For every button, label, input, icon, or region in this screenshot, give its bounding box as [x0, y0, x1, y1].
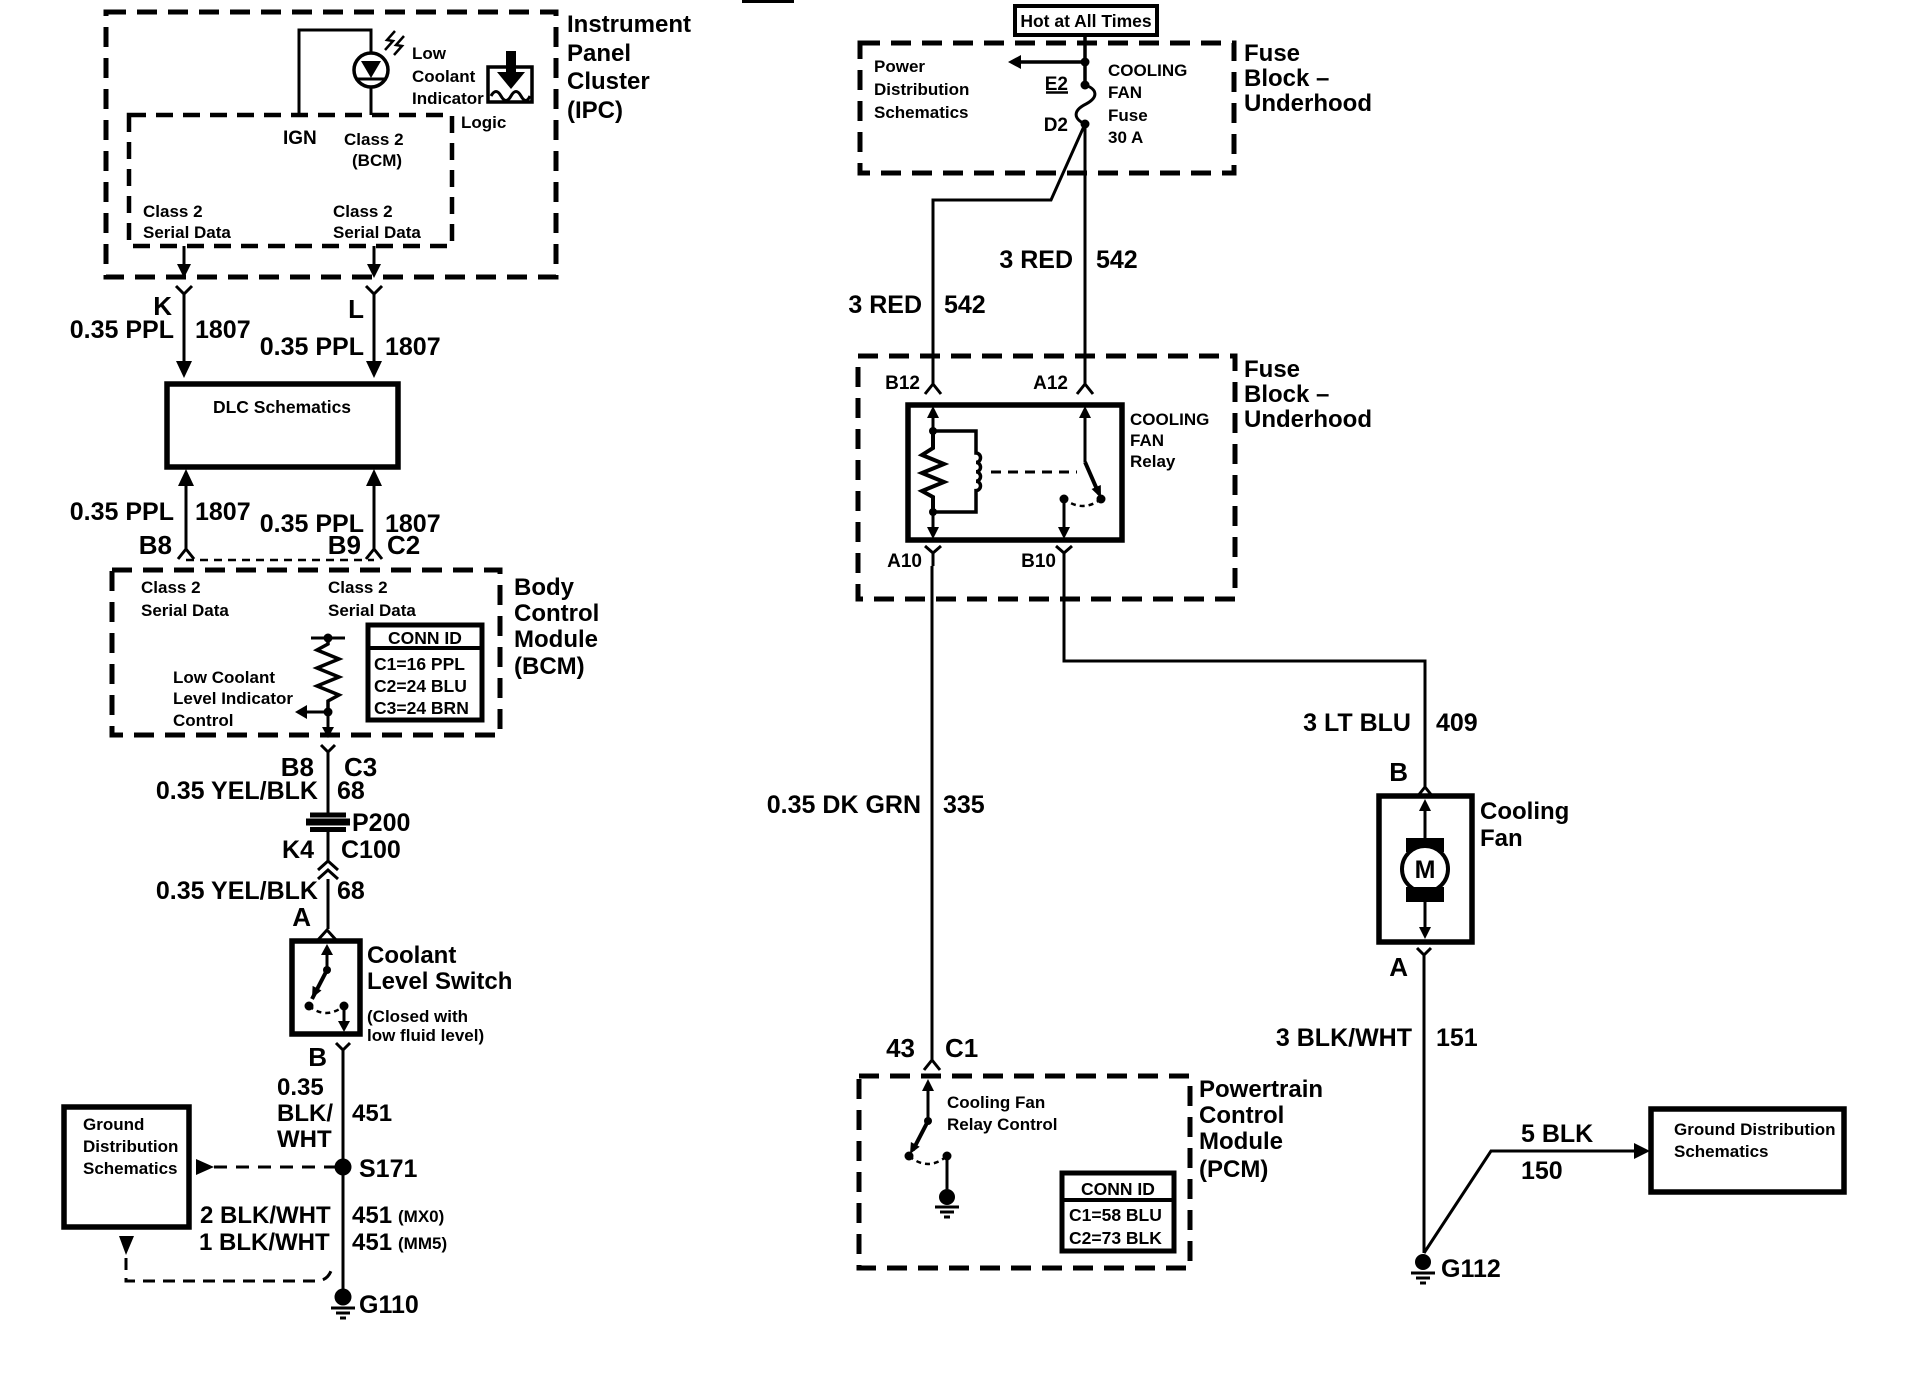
resistor (relay): [922, 431, 944, 512]
label: B12: [885, 373, 920, 394]
svg-text:150: 150: [1521, 1157, 1563, 1185]
label: E2: [1045, 74, 1068, 95]
svg-text:DLC Schematics: DLC Schematics: [213, 397, 351, 417]
svg-text:5 BLK: 5 BLK: [1521, 1120, 1593, 1148]
svg-text:Powertrain: Powertrain: [1199, 1076, 1323, 1103]
label: COOLING FAN Relay: [1130, 410, 1209, 471]
wire: D2 to B12 (diagonal + 3 RED 542): [933, 124, 1085, 372]
svg-text:A: A: [1389, 952, 1408, 982]
label: 0.35 PPL 1807 (K): [70, 316, 251, 344]
svg-text:Fan: Fan: [1480, 825, 1523, 852]
CONN ID table (PCM): [1062, 1173, 1174, 1251]
label: 43 C1: [886, 1033, 978, 1063]
svg-text:Class 2: Class 2: [328, 578, 388, 597]
svg-text:(Closed with: (Closed with: [367, 1007, 468, 1026]
svg-text:Schematics: Schematics: [83, 1159, 178, 1178]
wire: IGN feed to lamp: [299, 30, 371, 115]
svg-text:30 A: 30 A: [1108, 128, 1143, 147]
svg-text:Body: Body: [514, 574, 575, 601]
module label: Body Control Module (BCM): [514, 574, 599, 680]
label: 0.35 BLK/WHT 451: [277, 1074, 392, 1153]
wire: G112 to ground distribution (5 BLK 150): [1424, 1143, 1650, 1253]
wire: battery feed: [1083, 35, 1087, 85]
switch: cooling fan relay control driver (PCM): [905, 1079, 952, 1189]
label: A (fan): [1389, 952, 1408, 982]
svg-text:335: 335: [943, 791, 985, 819]
svg-text:Ground Distribution: Ground Distribution: [1674, 1120, 1835, 1139]
svg-text:1807: 1807: [385, 333, 441, 361]
CONN ID table (BCM): [368, 625, 482, 720]
svg-text:Low: Low: [412, 44, 447, 63]
svg-text:(PCM): (PCM): [1199, 1156, 1268, 1183]
svg-text:Module: Module: [1199, 1128, 1283, 1155]
relay coil input arrow (B12): [927, 406, 939, 431]
node: coil bottom junction: [929, 508, 937, 516]
svg-text:Distribution: Distribution: [83, 1137, 178, 1156]
svg-text:(MX0): (MX0): [398, 1207, 444, 1226]
svg-text:151: 151: [1436, 1024, 1478, 1052]
svg-text:Serial Data: Serial Data: [328, 601, 416, 620]
wire: A10 to PCM C1 (0.35 DK GRN 335): [931, 566, 934, 1048]
svg-text:0.35 DK GRN: 0.35 DK GRN: [767, 791, 921, 819]
svg-text:L: L: [348, 294, 364, 324]
label: Class 2 Serial Data (BCM right): [328, 578, 416, 620]
svg-text:Block –: Block –: [1244, 65, 1329, 92]
wire: B10 to cooling fan B (3 LT BLU 409): [1064, 566, 1425, 780]
module label: Fuse Block Underhood (relay): [1244, 356, 1372, 433]
ground: PCM internal: [935, 1189, 959, 1217]
svg-text:COOLING: COOLING: [1108, 61, 1187, 80]
label: Class 2 (BCM): [344, 130, 404, 170]
label: 0.35 YEL/BLK 68 (second): [156, 877, 365, 905]
connector: A12: [1077, 372, 1093, 394]
svg-text:Underhood: Underhood: [1244, 406, 1372, 433]
svg-text:43: 43: [886, 1033, 915, 1063]
svg-text:Fuse: Fuse: [1244, 40, 1300, 67]
connector chevron at switch A: [317, 930, 337, 941]
svg-text:Coolant: Coolant: [367, 942, 456, 969]
svg-text:Serial Data: Serial Data: [143, 223, 231, 242]
svg-text:B: B: [308, 1042, 327, 1072]
connector: B10: [1056, 546, 1072, 566]
node: feed junction: [1081, 58, 1090, 67]
label: 3 RED 542 (B12 feed): [848, 291, 985, 319]
label: Cooling Fan: [1480, 798, 1569, 852]
svg-text:3 BLK/WHT: 3 BLK/WHT: [1276, 1024, 1412, 1052]
svg-text:B10: B10: [1021, 551, 1056, 572]
wire: C100 to switch A: [327, 879, 330, 929]
svg-text:C2=24 BLU: C2=24 BLU: [374, 676, 467, 696]
svg-text:Low Coolant: Low Coolant: [173, 668, 275, 687]
switch: coolant level switch internals: [305, 944, 351, 1032]
fuse: COOLING FAN Fuse 30 A: [1076, 81, 1095, 129]
svg-text:CONN ID: CONN ID: [388, 628, 462, 648]
box: Ground Distribution Schematics (right): [1651, 1109, 1844, 1192]
svg-text:1 BLK/WHT: 1 BLK/WHT: [199, 1229, 330, 1256]
svg-text:3 RED: 3 RED: [848, 291, 922, 319]
svg-text:M: M: [1415, 856, 1436, 884]
ground: G110: [331, 1289, 419, 1320]
svg-text:Coolant: Coolant: [412, 67, 476, 86]
svg-text:B: B: [1389, 757, 1408, 787]
svg-text:Fuse: Fuse: [1244, 356, 1300, 383]
connector: B12: [925, 372, 941, 394]
svg-text:(MM5): (MM5): [398, 1234, 447, 1253]
svg-text:(IPC): (IPC): [567, 97, 623, 124]
svg-text:FAN: FAN: [1130, 431, 1164, 450]
module label: Fuse Block Underhood (top): [1244, 40, 1372, 117]
svg-text:C3=24 BRN: C3=24 BRN: [374, 698, 469, 718]
connector: PCM C1: [924, 1048, 940, 1070]
component box: Coolant Level Switch: [292, 941, 360, 1034]
node: coil top junction: [929, 427, 937, 435]
svg-text:IGN: IGN: [283, 128, 317, 149]
module label: Powertrain Control Module (PCM): [1199, 1076, 1323, 1183]
resistor: low coolant level indicator control (BCM): [311, 634, 345, 713]
svg-text:Schematics: Schematics: [1674, 1142, 1769, 1161]
relay actuate dashed link: [991, 471, 1077, 474]
module box: Powertrain Control Module (dashed): [859, 1076, 1190, 1268]
lamp rays: [385, 31, 404, 55]
svg-text:G110: G110: [359, 1291, 419, 1319]
arrow: ground distribution reference to S171 (dashed): [196, 1159, 335, 1175]
label: 2 BLK/WHT 451 (MX0): [200, 1202, 444, 1229]
svg-text:G112: G112: [1441, 1255, 1501, 1283]
svg-text:Indicator: Indicator: [412, 89, 484, 108]
svg-text:Cooling Fan: Cooling Fan: [947, 1093, 1045, 1112]
svg-text:Hot at All Times: Hot at All Times: [1020, 11, 1152, 31]
label: 0.35 PPL 1807 (B8): [70, 498, 251, 526]
module box: Body Control Module (dashed): [112, 570, 500, 735]
svg-text:Level Switch: Level Switch: [367, 968, 512, 995]
svg-text:Module: Module: [514, 626, 598, 653]
svg-text:A10: A10: [887, 551, 922, 572]
svg-text:C100: C100: [341, 836, 401, 864]
svg-text:Logic: Logic: [461, 113, 506, 132]
logic icon: [488, 51, 532, 102]
node: resistor output junction: [324, 708, 333, 717]
connector Y: switch B: [336, 1043, 350, 1058]
svg-text:542: 542: [944, 291, 986, 319]
svg-text:Block –: Block –: [1244, 381, 1329, 408]
wire: switch B to G110: [342, 1058, 345, 1291]
label: B (fan): [1389, 757, 1408, 787]
label: Coolant Level Switch: [367, 942, 512, 1045]
label: Low Coolant Level Indicator Control: [173, 668, 293, 730]
wire: control output with down arrow: [322, 712, 334, 738]
svg-text:Schematics: Schematics: [874, 103, 969, 122]
connector boundary box: IPC inner (dashed): [129, 115, 452, 246]
svg-text:WHT: WHT: [277, 1126, 332, 1153]
svg-text:Fuse: Fuse: [1108, 106, 1148, 125]
svg-text:BLK/: BLK/: [277, 1100, 333, 1127]
module box: Fuse Block Underhood top (dashed): [860, 43, 1234, 173]
svg-text:Power: Power: [874, 57, 925, 76]
label: 0.35 PPL 1807 (B9): [260, 510, 441, 538]
svg-text:0.35 YEL/BLK: 0.35 YEL/BLK: [156, 777, 318, 805]
svg-text:C1: C1: [945, 1033, 978, 1063]
svg-text:0.35 YEL/BLK: 0.35 YEL/BLK: [156, 877, 318, 905]
label: B8: [139, 530, 172, 560]
svg-text:Serial Data: Serial Data: [141, 601, 229, 620]
connector: C100 (K4) chevrons: [282, 836, 401, 879]
label: Power Distribution Schematics: [874, 57, 969, 122]
wire: BCM B8 to DLC (up arrow): [178, 469, 194, 559]
label: 0.35 PPL 1807 (L): [260, 333, 441, 361]
arrow: to ground distribution (down triangle, dashed link): [119, 1236, 331, 1281]
svg-text:409: 409: [1436, 709, 1478, 737]
label: 0.35 YEL/BLK 68: [156, 777, 365, 805]
svg-text:451: 451: [352, 1100, 392, 1127]
svg-text:C1=58 BLU: C1=58 BLU: [1069, 1205, 1162, 1225]
svg-text:Cluster: Cluster: [567, 68, 650, 95]
label: 3 BLK/WHT 151: [1276, 1024, 1478, 1052]
label: 5 BLK 150: [1521, 1120, 1593, 1185]
svg-text:A12: A12: [1033, 373, 1068, 394]
label: Class 2 Serial Data (IPC right): [333, 202, 421, 242]
svg-text:C2: C2: [387, 530, 420, 560]
module box: Fuse Block Underhood relay (dashed): [858, 356, 1235, 599]
label: A10: [887, 551, 922, 572]
label: Logic: [461, 113, 506, 132]
relay switch arm (A12): [1058, 406, 1106, 539]
svg-text:451: 451: [352, 1202, 392, 1229]
label: B9: [328, 530, 361, 560]
indicator lamp: Low Coolant Indicator: [354, 53, 388, 115]
svg-text:68: 68: [337, 877, 365, 905]
svg-text:3 RED: 3 RED: [999, 246, 1073, 274]
svg-text:(BCM): (BCM): [514, 653, 585, 680]
svg-text:Control: Control: [1199, 1102, 1284, 1129]
box: DLC Schematics: [167, 384, 398, 467]
svg-text:Serial Data: Serial Data: [333, 223, 421, 242]
svg-text:B8: B8: [139, 530, 172, 560]
label: B10: [1021, 551, 1056, 572]
svg-text:68: 68: [337, 777, 365, 805]
label: K: [153, 291, 172, 321]
svg-text:Relay: Relay: [1130, 452, 1176, 471]
label: COOLING FAN Fuse 30 A: [1108, 61, 1187, 147]
label: 3 RED 542 (A12 feed): [999, 246, 1137, 274]
svg-text:low fluid level): low fluid level): [367, 1026, 484, 1045]
svg-text:Level Indicator: Level Indicator: [173, 689, 293, 708]
relay box: COOLING FAN Relay: [908, 405, 1122, 540]
label: Low Coolant Indicator: [412, 44, 484, 108]
svg-text:Class 2: Class 2: [344, 130, 404, 149]
svg-text:B12: B12: [885, 373, 920, 394]
label: 0.35 DK GRN 335: [767, 791, 985, 819]
splice: P200: [306, 809, 410, 837]
connector Y: BCM B8/C3: [321, 745, 335, 760]
relay coil: [933, 431, 981, 512]
label: C2: [387, 530, 420, 560]
svg-text:542: 542: [1096, 246, 1138, 274]
connector: A10: [925, 546, 941, 566]
label: B (switch): [308, 1042, 327, 1072]
svg-text:Class 2: Class 2: [143, 202, 203, 221]
label: IGN: [283, 128, 317, 149]
svg-text:C2=73 BLK: C2=73 BLK: [1069, 1228, 1162, 1248]
svg-text:FAN: FAN: [1108, 83, 1142, 102]
wire: fan A to G112 (3 BLK/WHT 151): [1423, 966, 1426, 1253]
svg-text:451: 451: [352, 1229, 392, 1256]
svg-text:Underhood: Underhood: [1244, 90, 1372, 117]
svg-text:Control: Control: [173, 711, 233, 730]
box: Ground Distribution Schematics (left): [64, 1107, 189, 1227]
wire: D2 to A12 (3 RED 542): [1084, 124, 1087, 372]
svg-text:0.35: 0.35: [277, 1074, 324, 1101]
ground: G112: [1411, 1254, 1501, 1283]
scan artifact mark (top edge): [742, 0, 794, 3]
svg-text:Cooling: Cooling: [1480, 798, 1569, 825]
label: B8 C3: [281, 752, 378, 782]
svg-text:1807: 1807: [195, 316, 251, 344]
svg-text:B9: B9: [328, 530, 361, 560]
connector: fan A: [1417, 948, 1431, 966]
svg-text:0.35 PPL: 0.35 PPL: [70, 316, 174, 344]
component box: Cooling Fan: [1379, 796, 1472, 942]
svg-text:Relay Control: Relay Control: [947, 1115, 1058, 1134]
module box: Instrument Panel Cluster (dashed): [106, 12, 556, 277]
wire: P200 to C100: [327, 832, 330, 861]
module label: Instrument Panel Cluster (IPC): [567, 11, 691, 124]
label: 3 LT BLU 409: [1303, 709, 1478, 737]
wire: Class 2 serial data K to DLC: [176, 246, 192, 378]
svg-text:2 BLK/WHT: 2 BLK/WHT: [200, 1202, 331, 1229]
splice: S171: [335, 1155, 418, 1183]
svg-text:0.35 PPL: 0.35 PPL: [260, 333, 364, 361]
label: A12: [1033, 373, 1068, 394]
svg-text:3 LT BLU: 3 LT BLU: [1303, 709, 1411, 737]
relay coil output arrow (A10): [927, 512, 939, 539]
svg-text:Panel: Panel: [567, 40, 631, 67]
svg-text:COOLING: COOLING: [1130, 410, 1209, 429]
wiper arrow (left): [295, 705, 328, 719]
label: L: [348, 294, 364, 324]
arrow: to power distribution schematics: [1008, 55, 1085, 69]
svg-text:(BCM): (BCM): [352, 151, 402, 170]
connector: fan B: [1417, 780, 1433, 797]
svg-text:Ground: Ground: [83, 1115, 144, 1134]
power feed box: Hot at All Times: [1015, 6, 1157, 35]
label: Class 2 Serial Data (IPC left): [143, 202, 231, 242]
svg-text:Instrument: Instrument: [567, 11, 691, 38]
svg-text:A: A: [292, 902, 311, 932]
svg-text:1807: 1807: [195, 498, 251, 526]
label: Cooling Fan Relay Control: [947, 1093, 1058, 1134]
svg-text:P200: P200: [352, 809, 410, 837]
wire: BCM B9/C2 to DLC (up arrow): [366, 469, 382, 559]
motor: cooling fan M: [1402, 799, 1448, 939]
label: 1 BLK/WHT 451 (MM5): [199, 1229, 447, 1256]
label: D2: [1044, 115, 1068, 136]
svg-text:CONN ID: CONN ID: [1081, 1179, 1155, 1199]
wire: C3 to P200: [327, 760, 330, 813]
connector line: B8-B9 (thin dashed): [186, 559, 374, 562]
svg-text:D2: D2: [1044, 115, 1068, 136]
svg-text:K4: K4: [282, 836, 314, 864]
svg-text:C1=16 PPL: C1=16 PPL: [374, 654, 465, 674]
label: Class 2 Serial Data (BCM left): [141, 578, 229, 620]
svg-text:0.35 PPL: 0.35 PPL: [70, 498, 174, 526]
svg-text:Distribution: Distribution: [874, 80, 969, 99]
svg-text:Control: Control: [514, 600, 599, 627]
svg-text:Class 2: Class 2: [333, 202, 393, 221]
wire: Class 2 serial data L to DLC: [366, 246, 382, 378]
svg-text:Class 2: Class 2: [141, 578, 201, 597]
label: A (switch): [292, 902, 311, 932]
svg-text:S171: S171: [359, 1155, 417, 1183]
